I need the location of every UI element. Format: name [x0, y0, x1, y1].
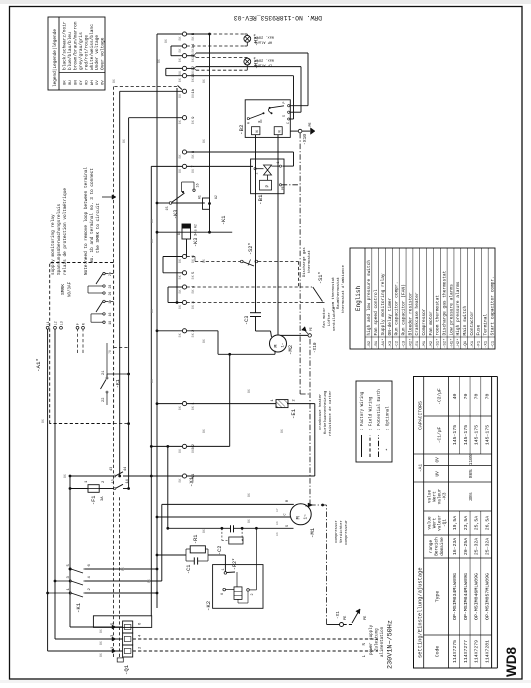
svg-text:Terminal: Terminal	[483, 314, 489, 336]
svg-text:BK: BK	[150, 309, 154, 313]
svg-text:thermostat: thermostat	[307, 250, 312, 273]
svg-text:18: 18	[108, 321, 112, 325]
svg-text:-A1*: -A1*	[381, 338, 386, 348]
svg-text:2: 2	[251, 593, 255, 595]
svg-text:-S1*: -S1*	[436, 338, 441, 348]
svg-text:6: 6	[221, 593, 225, 595]
svg-text:-M2: -M2	[287, 345, 294, 355]
svg-text:-C1: -C1	[186, 565, 192, 574]
svg-text:-M1: -M1	[309, 527, 316, 538]
svg-text:13: 13	[112, 479, 116, 483]
svg-text:domaine: domaine	[440, 537, 445, 556]
svg-text:-X1: -X1	[485, 340, 489, 348]
svg-text:A2: A2	[214, 195, 218, 199]
svg-text:red/rot/rouge: red/rot/rouge	[83, 35, 89, 70]
svg-text:Spannungsüberwachungsrelais: Spannungsüberwachungsrelais	[57, 203, 62, 275]
svg-text:23,5A: 23,5A	[463, 516, 469, 531]
svg-text:Bereich: Bereich	[435, 537, 440, 556]
svg-text:legend|Legende|légende: legend|Legende|légende	[53, 29, 58, 87]
svg-text:Kurbelwannenheizung: Kurbelwannenheizung	[323, 391, 328, 434]
svg-text:70: 70	[484, 394, 490, 400]
svg-text:-K3: -K3	[443, 492, 448, 500]
svg-text:BK: BK	[247, 519, 251, 523]
svg-text:blue/blau/bleu: blue/blau/bleu	[67, 32, 73, 70]
svg-text:26,5A: 26,5A	[484, 516, 490, 531]
svg-text:room thermostat: room thermostat	[435, 295, 441, 336]
svg-text:crankcase heater: crankcase heater	[318, 394, 323, 430]
svg-text:-H1*: -H1*	[449, 338, 454, 348]
svg-text:: Potential Earth: : Potential Earth	[377, 389, 382, 431]
svg-text:white/weiss/blanc: white/weiss/blanc	[89, 24, 95, 70]
svg-text:BK: BK	[275, 532, 279, 536]
svg-text:14: 14	[126, 479, 130, 483]
svg-text:room thermostat: room thermostat	[331, 277, 336, 311]
svg-text:-A1*: -A1*	[35, 358, 42, 372]
svg-text:15: 15	[166, 206, 170, 210]
svg-text:-C2: -C2	[217, 546, 223, 555]
svg-text:N: N	[81, 323, 85, 325]
svg-text:BK: BK	[202, 259, 206, 263]
svg-text:-K3: -K3	[193, 238, 199, 247]
svg-text:BK: BK	[280, 429, 284, 433]
svg-text:1~: 1~	[304, 514, 309, 520]
svg-text:-C3: -C3	[244, 316, 250, 325]
svg-text:alimentation: alimentation	[380, 626, 385, 657]
svg-text:Bleeder resistor: Bleeder resistor	[407, 292, 413, 336]
svg-text:Code: Code	[435, 646, 441, 658]
svg-text:-X1: -X1	[336, 611, 341, 619]
svg-text:max. 28VA: max. 28VA	[254, 35, 274, 39]
svg-text:86%: 86%	[468, 469, 474, 478]
svg-text:Contactor: Contactor	[469, 311, 475, 336]
svg-text:BK: BK	[157, 59, 161, 63]
svg-text:BN: BN	[74, 80, 78, 85]
svg-text:range: range	[429, 540, 434, 554]
svg-text:-X10: -X10	[313, 342, 318, 353]
svg-text:-C2: -C2	[396, 340, 400, 348]
svg-text:A: A	[247, 122, 251, 124]
svg-text:1~: 1~	[282, 342, 286, 347]
svg-text:fan motor: fan motor	[322, 307, 327, 328]
svg-text:28: 28	[108, 285, 112, 289]
svg-text:UV: UV	[436, 471, 441, 477]
svg-text:-X10: -X10	[302, 134, 308, 145]
svg-text:GY: GY	[275, 508, 279, 512]
svg-text:BK: BK	[275, 521, 279, 525]
svg-text:Compressor: Compressor	[421, 308, 427, 335]
svg-text:BK: BK	[99, 641, 103, 645]
svg-text:OP-MSIM057MLW09G: OP-MSIM057MLW09G	[484, 573, 490, 620]
svg-text:70: 70	[474, 394, 480, 400]
svg-text:M: M	[273, 345, 279, 348]
svg-text:38s: 38s	[468, 492, 474, 501]
svg-text:Run capacitor (FAN): Run capacitor (FAN)	[400, 284, 406, 335]
svg-text:-C3: -C3	[402, 340, 406, 348]
svg-text:UV: UV	[96, 80, 100, 85]
svg-text:BU: BU	[69, 80, 73, 85]
svg-text:70: 70	[463, 394, 469, 400]
svg-text:Verdichter: Verdichter	[339, 520, 344, 543]
svg-text:-Q1: -Q1	[464, 340, 468, 348]
svg-text:CAPACITORS: CAPACITORS	[418, 401, 424, 430]
svg-text:L2: L2	[53, 321, 57, 325]
svg-text:2: 2	[293, 399, 297, 401]
svg-text:: Field Wiring: : Field Wiring	[369, 396, 374, 431]
svg-text:BK: BK	[112, 79, 116, 83]
svg-text:Lüfter: Lüfter	[327, 312, 332, 326]
svg-text:R: R	[286, 500, 290, 502]
svg-text:PE: PE	[344, 616, 348, 620]
svg-text:-Q1: -Q1	[443, 519, 448, 527]
svg-text:-B2: -B2	[238, 124, 245, 135]
svg-text:-C1/µF: -C1/µF	[437, 426, 443, 443]
svg-text:Fuse: Fuse	[476, 324, 482, 335]
svg-text:WD8: WD8	[504, 647, 519, 677]
svg-text:HP Alarm: HP Alarm	[255, 40, 272, 45]
svg-text:Over voltage: Over voltage	[100, 37, 106, 70]
svg-text:Discharge gas: Discharge gas	[302, 247, 307, 277]
svg-text:No. 1b and terminal no. 3 to c: No. 1b and terminal no. 3 to connect	[90, 168, 95, 263]
svg-text:black/schwarz/noir: black/schwarz/noir	[62, 21, 68, 70]
svg-text:GY: GY	[80, 80, 84, 85]
svg-text:: Factory Wiring: : Factory Wiring	[360, 391, 365, 431]
svg-text:BK: BK	[202, 139, 206, 143]
svg-text:114X7277: 114X7277	[463, 640, 469, 663]
svg-text:-F1: -F1	[91, 496, 97, 505]
svg-text:OP-MSIM044MLW09G: OP-MSIM044MLW09G	[463, 573, 469, 620]
svg-text:-B1: -B1	[375, 340, 379, 348]
svg-text:44: 44	[124, 467, 128, 471]
svg-text:BK: BK	[247, 389, 251, 393]
svg-text:1b: 1b	[108, 300, 112, 304]
svg-text:25-32A: 25-32A	[484, 538, 490, 555]
svg-text:BK: BK	[202, 79, 206, 83]
svg-text:B: B	[258, 121, 261, 123]
svg-text:Raumthermostat: Raumthermostat	[336, 277, 341, 309]
svg-text:21: 21	[102, 370, 106, 375]
svg-text:22: 22	[102, 398, 106, 402]
svg-text:-E1: -E1	[416, 340, 420, 348]
svg-text:145-175: 145-175	[484, 425, 490, 445]
svg-text:P: P	[282, 102, 286, 104]
svg-text:A2: A2	[194, 224, 198, 228]
svg-text:OP-MSIM046MLW09G: OP-MSIM046MLW09G	[474, 573, 480, 620]
svg-text:-B2: -B2	[368, 340, 372, 348]
svg-text:-F1: -F1	[478, 340, 482, 348]
svg-text:BK: BK	[99, 629, 103, 633]
svg-text:43: 43	[110, 467, 114, 471]
svg-text:Zuleitung: Zuleitung	[375, 628, 380, 651]
svg-text:Main switch: Main switch	[462, 305, 468, 335]
svg-text:-R1: -R1	[193, 535, 199, 544]
svg-text:-K3: -K3	[389, 340, 393, 348]
svg-text:-R2*: -R2*	[232, 558, 238, 570]
svg-text:-M1: -M1	[423, 340, 427, 348]
svg-text:-R2*: -R2*	[408, 338, 413, 348]
svg-text:1: 1	[271, 399, 275, 401]
svg-text:Supply monitoring relay: Supply monitoring relay	[380, 273, 386, 335]
svg-text:Fan motor: Fan motor	[428, 311, 434, 336]
svg-text:26: 26	[108, 292, 112, 296]
svg-text:Low pressure alarms: Low pressure alarms	[448, 284, 454, 336]
svg-text:PE: PE	[364, 616, 368, 620]
svg-text:OV: OV	[102, 80, 106, 85]
svg-text:-H2*: -H2*	[456, 338, 461, 348]
svg-text:2: 2	[256, 172, 260, 174]
svg-text:145-175: 145-175	[452, 425, 458, 445]
svg-text:-K1: -K1	[221, 216, 227, 225]
svg-text:114X7275: 114X7275	[452, 640, 458, 663]
svg-text:25,5A: 25,5A	[474, 516, 480, 531]
svg-text:BK: BK	[150, 239, 154, 243]
svg-text:WH: WH	[91, 80, 95, 85]
svg-text:-C1: -C1	[491, 340, 495, 348]
svg-text:-K2: -K2	[205, 601, 212, 611]
svg-text:230V1N~/50Hz: 230V1N~/50Hz	[387, 620, 395, 669]
svg-text:PE: PE	[309, 122, 313, 126]
svg-text:16: 16	[197, 183, 201, 187]
svg-text:BK: BK	[164, 39, 168, 43]
svg-text:-A1: -A1	[418, 464, 424, 473]
svg-text:BK: BK	[202, 339, 206, 343]
svg-text:A1: A1	[198, 195, 202, 199]
svg-text:thermostat d'ambiance: thermostat d'ambiance	[341, 264, 346, 313]
svg-text:SMRK: SMRK	[60, 284, 66, 295]
svg-text:110%: 110%	[468, 454, 474, 465]
svg-text:L1: L1	[46, 321, 50, 325]
svg-text:25-32A: 25-32A	[474, 538, 480, 555]
svg-text:16-23A: 16-23A	[452, 538, 458, 555]
svg-text:1b: 1b	[191, 88, 196, 93]
svg-text:-K1: -K1	[75, 602, 82, 613]
svg-text:setting/Einstellung/ajustage: setting/Einstellung/ajustage	[418, 567, 424, 658]
svg-text:P: P	[76, 323, 80, 325]
svg-text:BK: BK	[121, 567, 125, 571]
svg-text:BK: BK	[147, 579, 151, 583]
svg-text:-M2: -M2	[430, 340, 434, 348]
svg-text:N: N	[256, 130, 260, 132]
svg-text:7B: 7B	[108, 350, 112, 354]
svg-text:M: M	[296, 516, 302, 519]
svg-text:max. 28VA: max. 28VA	[254, 57, 274, 61]
svg-text:compressor: compressor	[334, 520, 339, 543]
svg-text:BK: BK	[64, 80, 68, 85]
svg-text:OP-MSIM034MLW09G: OP-MSIM034MLW09G	[452, 573, 458, 620]
svg-text:BK: BK	[41, 419, 45, 423]
svg-text:114X7279: 114X7279	[474, 640, 480, 663]
svg-text:145-175: 145-175	[474, 425, 480, 445]
svg-text:N: N	[279, 130, 283, 132]
svg-text:OV: OV	[436, 457, 441, 463]
svg-text:-S1*: -S1*	[318, 272, 324, 284]
svg-text:supply monitoring relay: supply monitoring relay	[51, 214, 56, 275]
svg-text:-K3: -K3	[173, 210, 179, 219]
svg-text:BK: BK	[202, 429, 206, 433]
svg-text:BK: BK	[202, 529, 206, 533]
svg-text:power supply: power supply	[369, 624, 374, 655]
svg-text:brown/braun/marron: brown/braun/marron	[72, 21, 78, 70]
svg-text:L3: L3	[59, 321, 63, 325]
svg-text:DRW. NO-118R9353_REV-03: DRW. NO-118R9353_REV-03	[234, 14, 322, 21]
svg-text:20-25A: 20-25A	[463, 538, 469, 555]
svg-text:C: C	[286, 122, 290, 124]
svg-text:BK: BK	[122, 139, 126, 143]
svg-text:PE: PE	[309, 327, 313, 331]
svg-text:-S2*: -S2*	[443, 338, 448, 348]
svg-text:NO/3AF: NO/3AF	[68, 281, 73, 297]
svg-text:the SMRK to circuit: the SMRK to circuit	[96, 203, 101, 253]
svg-text:S: S	[282, 115, 286, 117]
svg-text:S: S	[286, 525, 290, 527]
svg-text:high and low pressure switch: high and low pressure switch	[366, 260, 372, 336]
svg-text:Note:need to remove loop betwe: Note:need to remove loop between termina…	[84, 167, 89, 275]
svg-text:C: C	[284, 513, 288, 515]
svg-text:Type: Type	[435, 591, 441, 603]
svg-text:-E1: -E1	[290, 408, 297, 419]
svg-text:-K1: -K1	[471, 340, 475, 348]
svg-text:BK: BK	[247, 493, 251, 497]
svg-text:compresseur: compresseur	[344, 520, 349, 545]
svg-text:16: 16	[108, 312, 112, 316]
svg-text:-S2*: -S2*	[248, 243, 254, 255]
svg-text:19,5A: 19,5A	[452, 516, 458, 531]
svg-text:Start capacitor compr.: Start capacitor compr.	[489, 276, 495, 335]
svg-text:High pressure alarms: High pressure alarms	[455, 281, 461, 335]
svg-text:English: English	[355, 286, 362, 312]
svg-text:PE: PE	[281, 186, 285, 190]
svg-text:BK: BK	[150, 379, 154, 383]
svg-text:ventilateur: ventilateur	[332, 306, 337, 331]
svg-text:Crankcase heater: Crankcase heater	[414, 292, 420, 336]
svg-text:grey/grau/gris: grey/grau/gris	[78, 32, 84, 70]
svg-text:Run capacitor compr.: Run capacitor compr.	[394, 281, 400, 335]
svg-text:P: P	[266, 185, 271, 188]
svg-text:Fan speed control: Fan speed control	[373, 289, 379, 335]
svg-text:RD: RD	[85, 80, 89, 85]
svg-text:-C2/µF: -C2/µF	[437, 388, 443, 405]
svg-text:BK: BK	[63, 474, 67, 478]
svg-text:*: *	[385, 448, 391, 451]
svg-text:ON-delay timer: ON-delay timer	[387, 297, 393, 335]
svg-text:BK: BK	[99, 653, 103, 657]
svg-text:résistance de carter: résistance de carter	[328, 390, 333, 436]
svg-text:40: 40	[452, 394, 458, 400]
svg-text:Under voltage: Under voltage	[94, 35, 100, 70]
svg-text:3A: 3A	[101, 496, 105, 501]
svg-text:Discharge gas thermostat: Discharge gas thermostat	[442, 270, 448, 335]
svg-text:A1: A1	[177, 231, 181, 235]
svg-text:114X7281: 114X7281	[484, 640, 490, 663]
svg-text:-B1: -B1	[257, 194, 264, 205]
svg-text:2b: 2b	[108, 272, 112, 276]
svg-text:145-175: 145-175	[463, 425, 469, 445]
svg-text:: Optional: : Optional	[386, 406, 391, 431]
svg-text:relais de protection voltmétri: relais de protection voltmétrique	[63, 188, 68, 275]
svg-text:-K1: -K1	[115, 379, 121, 388]
svg-text:BK: BK	[150, 219, 154, 223]
svg-text:-Q1: -Q1	[123, 664, 130, 675]
